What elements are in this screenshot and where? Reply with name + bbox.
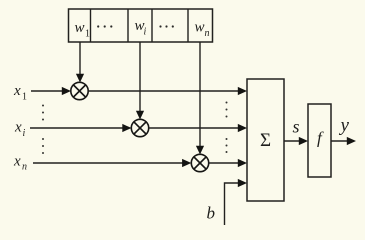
dots cell 4 bbox=[159, 25, 174, 27]
svg-text:n: n bbox=[205, 28, 210, 39]
wire xn in bbox=[33, 162, 184, 164]
svg-text:1: 1 bbox=[85, 29, 90, 40]
wire s bbox=[284, 140, 301, 142]
output wire y bbox=[331, 140, 349, 142]
wire M2 to sum bbox=[149, 127, 240, 129]
svg-text:x: x bbox=[13, 83, 21, 99]
wire M1 to sum bbox=[88, 90, 240, 92]
wire w1 down bbox=[79, 42, 81, 75]
multiplier M1 bbox=[71, 82, 88, 99]
dots cell 2 bbox=[97, 25, 112, 27]
svg-text:1: 1 bbox=[22, 92, 27, 103]
svg-text:s: s bbox=[293, 117, 300, 137]
dots right upper bbox=[226, 102, 228, 118]
dots right lower bbox=[226, 138, 228, 153]
dots left upper bbox=[42, 105, 44, 121]
wire xi in bbox=[30, 127, 124, 129]
svg-text:w: w bbox=[75, 20, 85, 36]
wire x1 in bbox=[31, 90, 64, 92]
svg-text:b: b bbox=[207, 204, 216, 223]
cell divider 3 bbox=[151, 9, 153, 42]
cell divider 2 bbox=[127, 9, 129, 42]
wire M3 to sum bbox=[209, 162, 240, 164]
wire wi down bbox=[139, 42, 141, 112]
activation box f bbox=[308, 104, 331, 177]
svg-text:i: i bbox=[23, 128, 26, 139]
cell divider 1 bbox=[90, 9, 92, 42]
cell divider 4 bbox=[187, 9, 189, 42]
svg-text:w: w bbox=[195, 20, 205, 36]
summation box bbox=[247, 79, 284, 201]
svg-text:n: n bbox=[22, 162, 27, 173]
svg-text:i: i bbox=[144, 27, 147, 38]
multiplier M2 bbox=[131, 119, 148, 136]
bias wire b bbox=[225, 183, 241, 225]
svg-text:y: y bbox=[339, 115, 350, 136]
svg-text:x: x bbox=[13, 154, 21, 170]
weight register box W bbox=[69, 9, 213, 42]
wire wn down bbox=[199, 42, 201, 147]
svg-text:x: x bbox=[14, 120, 22, 136]
multiplier M3 bbox=[191, 154, 208, 171]
dots left lower bbox=[42, 138, 44, 154]
svg-text:Σ: Σ bbox=[260, 130, 271, 151]
